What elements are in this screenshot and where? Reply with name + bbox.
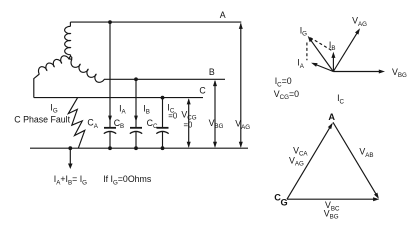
svg-text:CC: CC <box>147 118 158 130</box>
svg-text:A: A <box>220 10 226 20</box>
svg-text:VAB: VAB <box>359 147 373 159</box>
svg-text:IA: IA <box>297 58 304 70</box>
svg-text:VCG=0: VCG=0 <box>274 89 299 101</box>
svg-text:VBG: VBG <box>392 67 407 79</box>
svg-text:IB: IB <box>329 40 336 52</box>
svg-text:If IG=0Ohms: If IG=0Ohms <box>103 174 152 186</box>
svg-text:C: C <box>199 85 206 95</box>
svg-text:IA: IA <box>119 103 126 115</box>
svg-text:IA+IB= IG: IA+IB= IG <box>54 174 87 186</box>
svg-text:C Phase Fault: C Phase Fault <box>14 114 70 124</box>
svg-text:G: G <box>281 197 288 207</box>
svg-text:=0: =0 <box>184 120 194 129</box>
svg-text:A: A <box>328 112 335 122</box>
svg-text:IC: IC <box>337 93 344 105</box>
svg-text:IG: IG <box>300 26 307 38</box>
svg-text:IG: IG <box>50 103 57 115</box>
svg-text:IB: IB <box>143 103 150 115</box>
svg-text:VAG: VAG <box>235 119 250 131</box>
svg-text:=0: =0 <box>168 112 178 121</box>
svg-text:VAG: VAG <box>352 16 367 28</box>
svg-text:IC=0: IC=0 <box>275 76 292 88</box>
svg-text:B: B <box>209 67 215 77</box>
svg-text:CA: CA <box>87 118 98 130</box>
svg-text:VCA: VCA <box>293 145 308 157</box>
svg-text:VBG: VBG <box>209 118 224 130</box>
